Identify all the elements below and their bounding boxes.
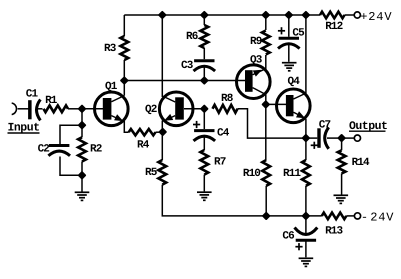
wire R13 to -24V terminal	[346, 215, 354, 217]
resistor R8	[213, 105, 238, 113]
node R1 / R2 / Q1 base	[79, 106, 85, 112]
svg-text:R10: R10	[243, 168, 260, 180]
label R2	[90, 143, 102, 155]
node bottom rail / R11 / C6	[303, 213, 309, 219]
wire Q1 emitter down	[124, 121, 128, 132]
ground input stage	[75, 192, 90, 200]
wire R8 to output node	[238, 109, 306, 138]
label C4	[217, 128, 230, 140]
node top rail / Q4 collector branch	[303, 12, 309, 18]
label R3	[104, 43, 117, 55]
svg-text:C1: C1	[26, 89, 39, 101]
svg-text:R7: R7	[214, 157, 226, 169]
wire Q4 emitter down	[305, 119, 307, 138]
wire R2 to ground node	[81, 162, 83, 176]
wire input to C1	[18, 108, 29, 110]
svg-text:R6: R6	[186, 31, 198, 43]
wire Q1 collector up	[123, 81, 125, 96]
resistor R13	[322, 213, 347, 220]
terminal Output	[354, 135, 360, 141]
label R14	[352, 157, 370, 169]
underline Input	[8, 132, 40, 134]
resistor R9	[262, 31, 270, 55]
capacitor C4	[194, 131, 216, 141]
capacitor C3	[194, 61, 216, 71]
wire Q3 base line	[124, 80, 245, 82]
terminal +24V	[354, 12, 360, 18]
wire R11 top	[305, 138, 307, 160]
wire C5 to ground	[288, 44, 290, 62]
svg-text:-: -	[361, 211, 368, 225]
transistor Q3	[237, 65, 271, 99]
label R7	[214, 157, 226, 169]
underline Output	[349, 130, 386, 132]
capacitor C6	[295, 228, 318, 241]
svg-text:C5: C5	[292, 28, 305, 40]
label C6	[282, 231, 294, 243]
transistor Q2	[159, 92, 193, 126]
svg-text:R5: R5	[145, 167, 158, 179]
wire R10 top	[265, 104, 267, 160]
node C3 / Q3 base wire	[201, 77, 207, 83]
node Q2 base / C4 / R8	[201, 106, 207, 112]
plus C4	[193, 121, 200, 128]
ground C5	[282, 63, 297, 71]
resistor R11	[302, 160, 310, 186]
wire node to C4	[203, 109, 205, 129]
label R1	[45, 95, 58, 107]
resistor R2	[78, 137, 86, 161]
wire R1 to node	[68, 108, 82, 110]
resistor R12	[320, 12, 345, 19]
label Q4	[288, 76, 301, 88]
wire R14 to ground	[341, 174, 343, 195]
wire Q2 collector from rail	[161, 15, 163, 97]
node bottom rail / R10	[263, 213, 269, 219]
wire tee to R2	[81, 125, 83, 137]
svg-text:R11: R11	[283, 168, 301, 180]
wire junction to ground	[81, 175, 83, 192]
wire C5 top	[288, 15, 290, 37]
wire R4 to Q2 emitter node	[156, 131, 163, 133]
wire C2 bottom to ground node	[60, 157, 82, 176]
node C7 / R14 / output	[339, 135, 345, 141]
wire Q4 base line	[266, 103, 286, 105]
wire R6 top	[203, 15, 205, 25]
svg-text:R2: R2	[90, 143, 102, 155]
node Q4 emitter / C7 / R11 / R8	[303, 135, 309, 141]
resistor R10	[262, 160, 270, 186]
label R8	[221, 93, 234, 105]
wire C1 to R1	[37, 108, 42, 110]
wire Q3 collector down	[265, 94, 267, 104]
wire R5 to bottom rail	[162, 185, 266, 216]
wire node down to R2 tee	[81, 109, 83, 125]
transistor Q4	[277, 89, 311, 123]
svg-text:R9: R9	[250, 36, 262, 48]
svg-text:+24V: +24V	[360, 10, 392, 24]
node top rail / R6 branch	[201, 12, 207, 18]
node R2 / C2 tee	[79, 122, 85, 128]
svg-text:Q4: Q4	[288, 76, 301, 88]
capacitor C1	[28, 100, 40, 121]
node R4 / Q2 emitter / R5	[160, 129, 166, 135]
wire R9 top	[265, 15, 267, 30]
label R4	[137, 140, 150, 152]
label Output	[349, 120, 387, 133]
wire R3 top corner	[123, 15, 125, 36]
svg-text:R4: R4	[137, 140, 150, 152]
plus C5	[278, 27, 285, 34]
svg-text:24V: 24V	[370, 211, 394, 225]
node Q1 collector / R3 / Q3 base wire	[121, 77, 127, 83]
label R12	[325, 21, 342, 33]
wire C3 to mid node	[203, 67, 205, 81]
svg-text:Q2: Q2	[145, 104, 157, 116]
ground R7	[197, 192, 212, 200]
terminal -24V	[354, 213, 360, 219]
resistor R6	[200, 25, 208, 48]
label -24V	[361, 211, 394, 225]
svg-text:R8: R8	[221, 93, 234, 105]
wire C6 to ground	[305, 242, 307, 258]
wire R14 top	[341, 138, 343, 150]
resistor R5	[158, 160, 166, 185]
resistor R7	[200, 150, 208, 175]
ground R14	[334, 195, 349, 203]
svg-text:R13: R13	[325, 226, 343, 238]
svg-text:C4: C4	[217, 128, 230, 140]
wire R6 to C3	[203, 48, 205, 59]
svg-text:Q1: Q1	[105, 81, 118, 93]
node top rail / C5 branch	[286, 12, 292, 18]
wire Q4 collector up	[305, 15, 307, 93]
wire C7 to output node	[327, 137, 342, 139]
plus C6	[295, 243, 302, 250]
wire Q2 emitter down	[161, 121, 163, 132]
label R13	[325, 226, 343, 238]
wire bottom rail to R13	[266, 215, 322, 217]
wire node to Q1 base	[82, 108, 103, 110]
capacitor C7	[319, 127, 329, 149]
svg-text:Q3: Q3	[250, 55, 263, 67]
label Q2	[145, 104, 157, 116]
resistor R3	[120, 36, 128, 60]
svg-text:C6: C6	[282, 231, 294, 243]
label R10	[243, 168, 260, 180]
plus C7	[311, 142, 318, 149]
resistor R4	[129, 129, 156, 135]
ground C6	[299, 258, 314, 266]
label C1	[26, 89, 39, 101]
resistor R14	[338, 150, 346, 173]
wire R7 to ground	[203, 175, 205, 192]
capacitor C2	[48, 146, 70, 156]
wire R3 to collector node	[123, 60, 125, 81]
svg-text:C2: C2	[38, 143, 50, 155]
label R6	[186, 31, 198, 43]
label Input	[8, 122, 40, 135]
label R11	[283, 168, 301, 180]
svg-text:R3: R3	[104, 43, 117, 55]
svg-text:C7: C7	[319, 120, 331, 132]
svg-text:R12: R12	[325, 21, 342, 33]
node top rail / Q2 collector branch	[159, 12, 165, 18]
terminal Input jack	[12, 103, 17, 115]
wire tee to C2 top	[60, 125, 82, 144]
wire rail to C6	[305, 216, 307, 234]
label C7	[319, 120, 331, 132]
wire to output terminal	[342, 137, 355, 139]
label R5	[145, 167, 158, 179]
label C2	[38, 143, 50, 155]
label Q3	[250, 55, 263, 67]
label +24V	[360, 10, 392, 24]
transistor Q1	[95, 92, 129, 126]
wire node to C7	[306, 137, 317, 139]
wire R9 to Q3 emitter	[265, 55, 267, 70]
svg-text:R14: R14	[352, 157, 370, 169]
node R2 / C2 ground junction	[79, 172, 85, 178]
label C5	[292, 28, 305, 40]
node top rail / R9 branch	[263, 12, 269, 18]
wire C4 to R7	[203, 137, 205, 151]
wire R5 top	[161, 132, 163, 160]
capacitor C5	[278, 38, 300, 48]
wire R11 to bottom rail	[305, 186, 307, 216]
wire R10 to bottom rail	[265, 186, 267, 216]
resistor R1	[44, 105, 69, 112]
wire +24V supply rail	[124, 14, 320, 16]
svg-text:R1: R1	[45, 95, 58, 107]
wire Q2 base to node	[184, 108, 204, 110]
wire R12 to +24V terminal	[345, 14, 355, 16]
label R9	[250, 36, 262, 48]
label C3	[181, 60, 194, 72]
label Q1	[105, 81, 118, 93]
svg-text:C3: C3	[181, 60, 194, 72]
node Q3 collector / Q4 base / R10	[263, 101, 269, 107]
